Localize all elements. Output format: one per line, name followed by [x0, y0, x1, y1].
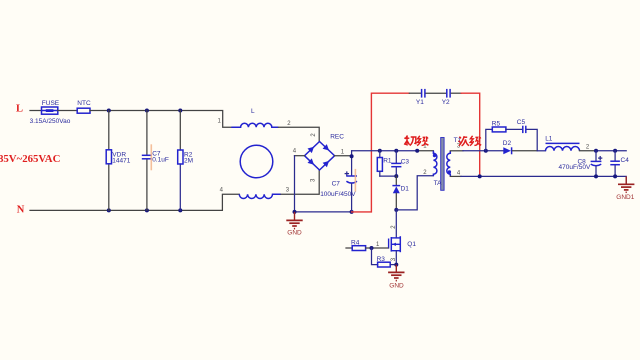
wire drain to transformer pin2 — [396, 176, 433, 210]
bridge diode top-right — [323, 144, 333, 154]
wire choke pin3 to bridge bottom (crosses minus wire) — [281, 170, 319, 194]
node junction red to bottom rail — [478, 174, 482, 178]
node junction L-R2 — [178, 109, 182, 113]
wire C5 to right corner down — [527, 129, 537, 150]
svg-text:R1: R1 — [383, 158, 392, 165]
wire R5 to C5 — [506, 128, 522, 130]
capacitor C3 — [395, 151, 397, 163]
svg-text:C4: C4 — [621, 157, 630, 164]
resistor R2 2M — [178, 150, 183, 164]
node junction C8 top — [594, 149, 598, 153]
node junction N-VDR — [107, 208, 111, 212]
wire C7 vertical — [146, 111, 148, 155]
node junction C8 bottom — [594, 174, 598, 178]
node junction R1 top — [378, 149, 382, 153]
wire VDR vertical — [108, 111, 110, 150]
wire fuse to ntc — [58, 110, 77, 112]
ground GND1 secondary — [618, 176, 634, 192]
node junction L-VDR — [107, 109, 111, 113]
transformer TA secondary winding — [447, 151, 450, 177]
bridge diode top-left — [308, 143, 318, 153]
net label secondary (ciji) — [459, 136, 482, 146]
svg-text:85V~265VAC: 85V~265VAC — [0, 153, 60, 165]
svg-text:REC: REC — [330, 134, 344, 141]
svg-text:2M: 2M — [184, 157, 193, 164]
svg-text:D1: D1 — [401, 185, 410, 192]
node junction L-C7 — [145, 109, 149, 113]
capacitor Y1 — [421, 89, 423, 98]
wire drain vertical — [395, 210, 397, 238]
svg-text:C5: C5 — [517, 119, 526, 126]
node junction C4 top — [613, 149, 617, 153]
svg-text:C3: C3 — [401, 158, 410, 165]
resistor R1 — [379, 151, 381, 158]
node junction C3 bottom — [394, 174, 398, 178]
svg-text:Y1: Y1 — [416, 99, 424, 106]
node junction C3 top — [394, 149, 398, 153]
wire source vertical — [395, 251, 397, 265]
svg-text:Y2: Y2 — [442, 99, 450, 106]
node junction REC1-C7 — [350, 154, 354, 158]
wire gate down to R3 — [372, 248, 378, 265]
capacitor C8 470uF/50V polarized — [595, 151, 597, 161]
fuse FUSE — [42, 107, 58, 114]
wire red Y-cap net left/top — [352, 93, 410, 212]
node junction bottom rail left — [293, 210, 297, 214]
thermistor NTC — [77, 108, 90, 113]
resistor R4 — [352, 246, 365, 251]
wire R3 to source — [390, 264, 396, 266]
choke core circle — [240, 145, 273, 178]
wire R2 vertical — [179, 111, 181, 151]
svg-text:GND: GND — [287, 229, 302, 236]
capacitor C5 — [522, 126, 524, 133]
svg-text:FUSE: FUSE — [42, 100, 60, 107]
diode D2 — [503, 147, 511, 154]
svg-text:0.1uF: 0.1uF — [152, 157, 169, 164]
wire D2 to L1 — [513, 150, 538, 152]
node junction N-C7 — [145, 208, 149, 212]
node junction snubber left — [484, 149, 488, 153]
resistor R5 — [492, 127, 506, 132]
capacitor C7 100uF/450V polarized — [345, 172, 357, 212]
svg-text:470uF/50V: 470uF/50V — [558, 164, 590, 171]
svg-text:100uF/450V: 100uF/450V — [320, 191, 356, 198]
svg-text:L: L — [251, 108, 255, 115]
inductor L common-mode choke bottom winding — [239, 194, 281, 198]
diode D1 clamp — [395, 176, 397, 185]
transformer TA primary winding — [433, 151, 437, 176]
svg-text:3.15A/250Vao: 3.15A/250Vao — [30, 118, 71, 125]
svg-text:R4: R4 — [351, 240, 360, 247]
wire choke pin2 to bridge top — [279, 127, 320, 141]
capacitor C4 — [614, 151, 616, 161]
wire gate stub — [346, 247, 352, 249]
node junction primary pin1 — [415, 149, 419, 153]
wire REC pin1 lead — [335, 155, 352, 157]
wire secondary bottom rail — [450, 175, 461, 177]
net label primary (chuji) — [404, 136, 428, 146]
svg-text:GND1: GND1 — [616, 194, 634, 201]
capacitor C7 0.1uF — [142, 154, 152, 156]
wire primary top rail — [352, 150, 418, 152]
resistor R3 — [378, 262, 391, 267]
wire L1 to output — [580, 150, 597, 152]
svg-text:N: N — [17, 205, 25, 216]
wire red Y-cap net right drop — [461, 93, 479, 176]
wire C7 bulk vertical top — [351, 151, 353, 175]
bridge diode bottom-left — [308, 158, 318, 168]
svg-text:D2: D2 — [503, 140, 512, 147]
artifact orange line near C7 bulk — [354, 169, 356, 192]
wire Y2 lead right — [451, 92, 461, 94]
artifact orange line near C7 — [150, 144, 152, 170]
wire REC pin4 to minus vertical — [295, 155, 305, 157]
wire bottom rail — [295, 211, 352, 213]
ground GND primary — [286, 212, 302, 229]
svg-text:C7: C7 — [332, 181, 341, 188]
transistor Q1 MOSFET — [389, 236, 401, 252]
wire L input — [30, 110, 42, 112]
wire Y1 to Y2 — [426, 92, 446, 94]
svg-text:Q1: Q1 — [407, 241, 416, 248]
bridge diode bottom-right — [323, 157, 333, 167]
wire Y1 lead left — [409, 92, 420, 94]
transformer primary polarity dot — [433, 154, 436, 157]
wire minus vertical (crosses choke AC2 line) — [294, 156, 296, 212]
capacitor Y2 — [446, 89, 448, 98]
svg-text:NTC: NTC — [77, 100, 91, 107]
svg-text:GND: GND — [389, 283, 404, 290]
node junction drain — [394, 208, 398, 212]
node junction N-R2 — [178, 208, 182, 212]
svg-text:L: L — [16, 103, 23, 114]
svg-text:R3: R3 — [377, 256, 386, 263]
svg-text:TA: TA — [434, 180, 442, 187]
node junction bottom rail C7 — [350, 210, 354, 214]
wire ntc to choke corner — [90, 111, 231, 128]
wire N rail — [30, 194, 239, 210]
ground GND under Q1 — [388, 265, 404, 281]
svg-text:14471: 14471 — [112, 157, 130, 164]
node junction C4 bottom — [613, 174, 617, 178]
varistor VDR 14471 — [106, 150, 111, 164]
svg-text:L1: L1 — [545, 136, 553, 143]
transformer core — [441, 138, 444, 191]
wire secondary top line — [450, 150, 463, 152]
transformer secondary polarity dot — [448, 170, 451, 173]
wire snubber branch — [486, 129, 493, 150]
node junction source — [394, 263, 398, 267]
svg-text:R5: R5 — [492, 121, 501, 128]
wire R4 to gate — [366, 247, 388, 249]
bridge rectifier diamond — [305, 142, 335, 171]
node junction gate — [370, 246, 374, 250]
